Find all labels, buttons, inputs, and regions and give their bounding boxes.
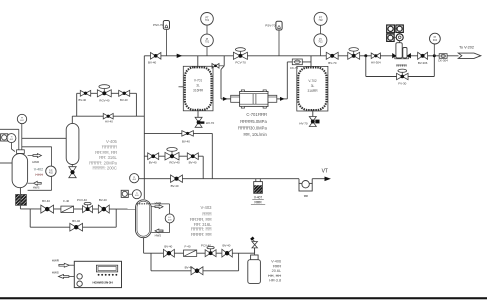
svg-text:701: 701 — [205, 18, 210, 22]
svg-text:BV-40: BV-40 — [120, 98, 128, 102]
svg-text:V-701: V-701 — [194, 79, 203, 83]
svg-text:316ĦĦ: 316ĦĦ — [193, 89, 204, 93]
svg-text:HWS: HWS — [52, 271, 59, 275]
svg-text:ĦĦĦ: ĦĦĦ — [202, 211, 211, 216]
svg-text:RGV-40: RGV-40 — [169, 161, 180, 165]
svg-text:BV-40: BV-40 — [149, 161, 157, 165]
svg-text:HV-40: HV-40 — [105, 120, 113, 124]
svg-text:316ĦĦ: 316ĦĦ — [308, 89, 319, 93]
svg-text:HWS: HWS — [33, 186, 40, 190]
svg-text:V-402: V-402 — [34, 167, 43, 171]
svg-text:PSV-70: PSV-70 — [153, 23, 164, 27]
svg-text:BV-40: BV-40 — [222, 244, 230, 248]
svg-text:PCV-70: PCV-70 — [235, 61, 246, 65]
svg-text:ĦĦĦĦ30.0MPa: ĦĦĦĦ30.0MPa — [238, 125, 268, 130]
svg-text:HWS: HWS — [155, 233, 162, 237]
svg-text:V-702: V-702 — [308, 79, 317, 83]
svg-text:ĦĦ: 316L: ĦĦ: 316L — [99, 155, 117, 160]
svg-text:ĦĦĦĦĦ: ĦĦĦĦĦ — [102, 144, 117, 149]
svg-text:HV-304: HV-304 — [371, 60, 381, 64]
svg-text:HWR: HWR — [32, 160, 39, 164]
svg-text:C-701ĦĦĦ: C-701ĦĦĦ — [246, 112, 266, 117]
svg-text:ĦĦĦ: ĦĦĦ — [35, 173, 43, 177]
svg-text:702: 702 — [318, 40, 323, 44]
svg-text:F-40: F-40 — [185, 244, 191, 248]
svg-text:ĦĦĦĦ: ĦĦ: ĦĦĦĦ: ĦĦ — [191, 232, 211, 237]
svg-text:HWR: HWR — [52, 259, 60, 263]
svg-text:RGV-40: RGV-40 — [99, 99, 109, 103]
svg-text:BV-40: BV-40 — [42, 199, 50, 203]
svg-text:ĦĦĦ: ĦĦĦ — [255, 201, 263, 205]
svg-text:ĦĦĦĦ: 200C: ĦĦĦĦ: 200C — [92, 166, 116, 171]
svg-text:BV-70: BV-70 — [328, 61, 337, 65]
svg-text:BV-40: BV-40 — [164, 244, 172, 248]
svg-text:701: 701 — [205, 40, 210, 44]
svg-text:BV-40: BV-40 — [72, 219, 80, 223]
svg-text:HV-70: HV-70 — [206, 121, 215, 125]
svg-text:3L: 3L — [311, 84, 315, 88]
svg-text:VT: VT — [322, 168, 328, 174]
svg-text:BV-40: BV-40 — [185, 266, 193, 270]
svg-text:PCV-40: PCV-40 — [77, 198, 87, 202]
svg-text:3L: 3L — [196, 84, 200, 88]
svg-text:ĦĦ: ĦĦ — [304, 194, 308, 198]
svg-text:BV-40: BV-40 — [189, 161, 197, 165]
svg-text:To V-202: To V-202 — [459, 45, 474, 49]
svg-text:CK-304: CK-304 — [438, 59, 448, 63]
svg-text:402: 402 — [49, 171, 54, 174]
svg-text:BV-40: BV-40 — [182, 140, 190, 144]
svg-text:V-406: V-406 — [271, 260, 281, 264]
svg-text:F-40: F-40 — [63, 199, 69, 203]
svg-text:BV-40: BV-40 — [78, 98, 86, 102]
svg-text:BV-40: BV-40 — [99, 198, 107, 202]
svg-text:ĦĦĦĦ5.0MPa: ĦĦĦĦ5.0MPa — [240, 119, 267, 124]
svg-text:ĦĦĦĦ: ĦĦ: ĦĦĦĦ: ĦĦ — [191, 227, 211, 232]
svg-text:BV-40: BV-40 — [148, 61, 157, 65]
svg-text:V-407: V-407 — [254, 196, 263, 200]
svg-text:FV-30: FV-30 — [398, 82, 406, 86]
svg-text:702: 702 — [318, 18, 323, 22]
svg-text:ĦĦĦĦĦ: ĦĦĦĦĦ — [396, 63, 407, 67]
svg-text:BV-306: BV-306 — [418, 61, 428, 65]
svg-text:BV-40: BV-40 — [171, 184, 179, 188]
svg-text:HGHWS-2N-3H: HGHWS-2N-3H — [93, 281, 113, 285]
svg-text:HWR: HWR — [155, 201, 162, 205]
svg-text:20.6L: 20.6L — [272, 269, 282, 273]
svg-text:PCV-40: PCV-40 — [201, 244, 211, 248]
svg-text:ĦĦ, 10L/min: ĦĦ, 10L/min — [244, 132, 268, 137]
svg-text:HV-70: HV-70 — [299, 121, 308, 125]
svg-text:HĦ-3.8: HĦ-3.8 — [269, 279, 281, 283]
svg-text:V-403: V-403 — [201, 205, 213, 210]
svg-text:ĦĦĦ: ĦĦĦ — [273, 264, 281, 268]
svg-text:304: 304 — [433, 38, 438, 42]
svg-text:PSV-70: PSV-70 — [265, 23, 276, 27]
svg-text:ĦĦ, ĦĦ: ĦĦ, ĦĦ — [268, 274, 281, 278]
